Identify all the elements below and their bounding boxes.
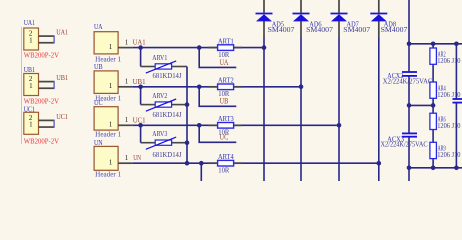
connector UB1 pin 1 lead xyxy=(39,87,55,89)
svg-text:681KD14J: 681KD14J xyxy=(153,110,182,119)
svg-text:1: 1 xyxy=(29,36,33,44)
net label UA1 on row 1 xyxy=(133,38,146,47)
junction bottom rail at capacitor column xyxy=(407,166,412,171)
resistor AR9 designator xyxy=(438,145,446,153)
wire phase row 1 xyxy=(132,47,264,49)
header UC pin number 1 xyxy=(125,116,129,124)
junction row 3 varistor tap xyxy=(138,123,143,128)
svg-text:1: 1 xyxy=(29,82,33,90)
varistor ARV1 designator xyxy=(152,53,167,62)
wire phase row 3 xyxy=(132,124,339,126)
varistor ARV1 value 681KD14J xyxy=(153,71,182,80)
net label UA xyxy=(220,58,229,67)
junction diode AD8 to row 4 xyxy=(377,161,382,166)
resistor ART3 leads xyxy=(209,124,243,126)
junction diode AD7 to row 3 xyxy=(337,123,342,128)
svg-text:WB200P-2V: WB200P-2V xyxy=(24,51,60,60)
svg-text:SM4007: SM4007 xyxy=(343,25,370,34)
resistor ART3 body xyxy=(218,123,234,129)
varistor ARV3 left lead xyxy=(141,142,156,144)
wire UA stub xyxy=(199,48,236,68)
connector UC1 pin name 1 xyxy=(29,121,33,129)
net label UN on row 4 xyxy=(133,153,141,162)
connector UA1 value WB200P-2V xyxy=(24,51,60,60)
svg-text:1: 1 xyxy=(125,38,129,46)
resistor ART1 designator xyxy=(218,36,234,45)
svg-text:UB1: UB1 xyxy=(24,65,35,74)
varistor ARV1 body xyxy=(146,61,176,73)
junction top rail at AR column xyxy=(431,42,436,47)
svg-text:1: 1 xyxy=(109,82,113,90)
resistor ART4 body xyxy=(218,160,234,166)
wire diode AD7 vertical xyxy=(338,38,340,182)
svg-text:1: 1 xyxy=(125,154,129,162)
diode AD5 pin top xyxy=(263,0,265,13)
svg-text:1: 1 xyxy=(109,43,113,51)
svg-text:UC: UC xyxy=(94,98,103,107)
resistor ART2 body xyxy=(218,84,234,90)
capacitor on right rail (partial) xyxy=(453,99,462,103)
junction bottom rail at AR column xyxy=(431,166,436,171)
varistor ARV3 value 681KD14J xyxy=(153,150,182,159)
header UC designator xyxy=(94,98,103,107)
svg-text:UB: UB xyxy=(94,62,103,71)
header UA value Header 1 xyxy=(95,56,121,64)
varistor ARV2 right lead xyxy=(172,104,187,106)
svg-text:1: 1 xyxy=(29,121,33,129)
svg-text:UN: UN xyxy=(133,153,141,162)
header UA designator xyxy=(94,22,103,31)
svg-text:UB1: UB1 xyxy=(56,73,68,82)
wire varistor common to neutral xyxy=(186,67,188,164)
wire varistor tap row 3 xyxy=(140,125,142,142)
capacitor ACX2 designator xyxy=(387,71,403,80)
wire shorting pins of UA1 xyxy=(53,35,55,43)
connector UA1 designator xyxy=(24,18,35,27)
svg-text:X2/224K/275VAC: X2/224K/275VAC xyxy=(383,77,433,86)
wire capacitor column xyxy=(408,0,410,181)
svg-text:UC1: UC1 xyxy=(133,115,146,124)
svg-text:UC1: UC1 xyxy=(56,112,68,121)
junction diode AD6 to row 2 xyxy=(299,85,304,90)
svg-text:10R: 10R xyxy=(218,50,229,59)
resistor AR6 body xyxy=(430,113,437,129)
varistor ARV2 designator xyxy=(152,91,167,100)
svg-text:Header 1: Header 1 xyxy=(95,170,121,178)
header UC pin 1 lead xyxy=(118,124,132,126)
connector UA1 pin 2 lead xyxy=(39,35,55,37)
resistor ART2 designator xyxy=(218,76,234,85)
svg-text:10R: 10R xyxy=(218,128,229,137)
header UN pin 1 lead xyxy=(118,162,132,164)
wire diode AD5 vertical xyxy=(263,38,265,182)
resistor AR2 body xyxy=(430,48,437,64)
resistor ART2 value 10R xyxy=(218,89,229,98)
header UC pin name 1 xyxy=(109,121,113,129)
resistor AR6 value 1206 J10 xyxy=(437,122,461,130)
diode AD7 designator xyxy=(347,20,360,29)
header UN pin name 1 xyxy=(109,158,113,166)
varistor ARV2 value 681KD14J xyxy=(153,110,182,119)
wire mid rail xyxy=(409,104,433,106)
svg-text:UA: UA xyxy=(94,22,103,31)
resistor ART1 value 10R xyxy=(218,50,229,59)
diode AD6 pin top xyxy=(300,0,302,13)
wire UC stub xyxy=(199,125,236,142)
junction ARV2 to common xyxy=(185,102,190,107)
diode AD6 value SM4007 xyxy=(306,25,333,34)
header UB designator xyxy=(94,62,103,71)
svg-text:ARV2: ARV2 xyxy=(152,91,167,100)
header UA body xyxy=(94,32,118,54)
connector UC1 body xyxy=(24,112,39,134)
junction mid rail at AR column xyxy=(431,103,436,108)
resistor ART4 designator xyxy=(218,152,234,161)
header UA pin name 1 xyxy=(109,43,113,51)
header UN body xyxy=(94,146,118,170)
capacitor ACX3 symbol xyxy=(402,133,417,136)
wire UB stub xyxy=(199,87,236,107)
svg-text:1206 J10: 1206 J10 xyxy=(437,91,461,99)
svg-text:X2/224K/275VAC: X2/224K/275VAC xyxy=(381,140,428,149)
header UB body xyxy=(94,71,118,94)
svg-text:681KD14J: 681KD14J xyxy=(153,71,182,80)
header UN pin number 1 xyxy=(125,154,129,162)
junction bottom rail at right rail xyxy=(454,166,459,171)
svg-text:1206 J10: 1206 J10 xyxy=(437,122,461,130)
resistor AR9 body xyxy=(430,142,437,158)
svg-text:ARV3: ARV3 xyxy=(152,129,167,138)
connector UA1 pin name 2 xyxy=(29,30,33,38)
diode AD8 value SM4007 xyxy=(381,25,408,34)
capacitor ACX3 designator xyxy=(387,134,404,143)
svg-text:1206 J10: 1206 J10 xyxy=(437,57,461,65)
wire shorting pins of UC1 xyxy=(53,120,55,128)
wire shorting pins of UB1 xyxy=(53,81,55,89)
svg-text:10R: 10R xyxy=(218,89,229,98)
resistor ART2 leads xyxy=(209,86,243,88)
connector UC1 designator xyxy=(24,104,35,113)
wire AR column xyxy=(432,44,434,168)
resistor AR9 value 1206 J10 xyxy=(437,151,461,159)
resistor ART3 designator xyxy=(218,114,234,123)
net label UB1 on row 2 xyxy=(133,77,146,86)
resistor AR4 value 1206 J10 xyxy=(437,91,461,99)
junction ARV3 to common xyxy=(185,140,190,145)
connector UB1 designator xyxy=(24,65,35,74)
net label UC1 xyxy=(56,112,68,121)
diode AD6 symbol xyxy=(293,14,310,22)
header UN value Header 1 xyxy=(95,170,121,178)
diode AD7 symbol xyxy=(331,14,348,22)
svg-text:ART2: ART2 xyxy=(218,76,234,85)
svg-text:SM4007: SM4007 xyxy=(381,25,408,34)
connector UC1 pin 1 lead xyxy=(39,126,55,128)
connector UA1 body xyxy=(24,28,39,50)
connector UA1 pin name 1 xyxy=(29,36,33,44)
varistor ARV3 right lead xyxy=(172,142,187,144)
connector UB1 pin name 1 xyxy=(29,82,33,90)
header UA pin number 1 xyxy=(125,38,129,46)
capacitor ACX3 value xyxy=(381,140,428,149)
wire right rail xyxy=(455,44,457,168)
net label UB1 xyxy=(56,73,68,82)
varistor ARV2 body xyxy=(146,99,176,111)
header UC body xyxy=(94,107,118,130)
header UB pin number 1 xyxy=(125,78,129,86)
diode AD7 pin bottom xyxy=(338,21,340,38)
diode AD5 value SM4007 xyxy=(268,25,295,34)
svg-text:ARV1: ARV1 xyxy=(152,53,167,62)
resistor AR6 designator xyxy=(438,116,446,124)
svg-text:UA1: UA1 xyxy=(24,18,35,27)
diode AD8 pin bottom xyxy=(378,21,380,38)
net label UA1 xyxy=(56,28,68,37)
junction top rail at capacitor column xyxy=(407,42,412,47)
capacitor ACX2 value xyxy=(383,77,433,86)
connector UC1 value WB200P-2V xyxy=(24,137,60,146)
connector UC1 pin name 2 xyxy=(29,114,33,122)
svg-text:1206 J10: 1206 J10 xyxy=(437,151,461,159)
diode AD8 designator xyxy=(384,20,397,29)
svg-text:ART4: ART4 xyxy=(218,152,234,161)
header UC value Header 1 xyxy=(95,130,121,138)
svg-text:UN: UN xyxy=(94,138,103,147)
svg-text:1: 1 xyxy=(125,78,129,86)
connector UB1 value WB200P-2V xyxy=(24,96,60,105)
junction top rail at right rail xyxy=(454,42,459,47)
diode AD5 symbol xyxy=(256,14,273,22)
header UB pin 1 lead xyxy=(118,86,132,88)
svg-text:UA1: UA1 xyxy=(133,38,146,47)
wire phase row 2 xyxy=(132,86,301,88)
junction row 2 varistor tap xyxy=(138,85,143,90)
junction row 1 stub tap xyxy=(197,45,202,50)
svg-text:681KD14J: 681KD14J xyxy=(153,150,182,159)
junction common to UN row xyxy=(185,161,190,166)
wire diode AD6 vertical xyxy=(300,38,302,182)
svg-text:ART3: ART3 xyxy=(218,114,234,123)
junction UN row stub xyxy=(199,161,204,166)
resistor ART3 value 10R xyxy=(218,128,229,137)
svg-text:WB200P-2V: WB200P-2V xyxy=(24,137,60,146)
resistor AR4 body xyxy=(430,82,437,98)
svg-text:1: 1 xyxy=(109,158,113,166)
connector UB1 pin 2 lead xyxy=(39,81,55,83)
wire phase row 4 xyxy=(132,162,378,164)
diode AD6 designator xyxy=(309,20,322,29)
diode AD7 value SM4007 xyxy=(343,25,370,34)
resistor ART1 body xyxy=(218,45,234,51)
header UN designator xyxy=(94,138,103,147)
resistor AR2 designator xyxy=(438,50,446,58)
varistor ARV3 body xyxy=(146,137,176,149)
header UB value Header 1 xyxy=(95,94,121,102)
svg-text:SM4007: SM4007 xyxy=(306,25,333,34)
junction row 2 stub tap xyxy=(197,85,202,90)
varistor ARV1 right lead xyxy=(172,66,187,68)
diode AD8 symbol xyxy=(370,14,387,22)
resistor AR2 value 1206 J10 xyxy=(437,57,461,65)
diode AD5 pin bottom xyxy=(263,21,265,38)
varistor ARV3 designator xyxy=(152,129,167,138)
svg-text:UB1: UB1 xyxy=(133,77,146,86)
connector UA1 pin 1 lead xyxy=(39,42,55,44)
resistor ART1 leads xyxy=(209,47,243,49)
wire UN stub down xyxy=(200,163,202,181)
header UB pin name 1 xyxy=(109,82,113,90)
junction diode AD5 to row 1 xyxy=(262,45,267,50)
header UA pin 1 lead xyxy=(118,47,132,49)
diode AD7 pin top xyxy=(338,0,340,13)
varistor ARV2 left lead xyxy=(141,104,156,106)
diode AD8 pin top xyxy=(378,0,380,13)
junction row 1 varistor tap xyxy=(138,45,143,50)
resistor ART4 leads xyxy=(209,162,243,164)
connector UB1 body xyxy=(24,74,39,96)
net label UB xyxy=(220,97,229,106)
wire top rail xyxy=(409,43,462,45)
wire diode AD8 vertical xyxy=(378,38,380,182)
varistor ARV1 left lead xyxy=(141,66,156,68)
capacitor ACX2 symbol xyxy=(402,72,417,76)
svg-text:UA: UA xyxy=(220,58,229,67)
resistor AR4 designator xyxy=(438,84,446,92)
svg-text:UA1: UA1 xyxy=(56,28,68,37)
connector UC1 pin 2 lead xyxy=(39,119,55,121)
svg-text:SM4007: SM4007 xyxy=(268,25,295,34)
junction mid rail at capacitor column xyxy=(407,103,412,108)
vertical guide line xyxy=(21,27,23,144)
net label UC1 on row 3 xyxy=(133,115,146,124)
resistor ART4 value 10R xyxy=(218,166,229,175)
diode AD5 designator xyxy=(272,20,285,29)
svg-text:1: 1 xyxy=(125,116,129,124)
net label UC xyxy=(220,133,229,142)
wire varistor tap row 1 xyxy=(140,48,142,67)
connector UB1 pin name 2 xyxy=(29,75,33,83)
svg-text:10R: 10R xyxy=(218,166,229,175)
wire varistor tap row 2 xyxy=(140,87,142,105)
svg-text:1: 1 xyxy=(109,121,113,129)
svg-text:ART1: ART1 xyxy=(218,36,234,45)
wire bottom rail xyxy=(409,167,462,169)
junction row 3 stub tap xyxy=(197,123,202,128)
diode AD6 pin bottom xyxy=(300,21,302,38)
